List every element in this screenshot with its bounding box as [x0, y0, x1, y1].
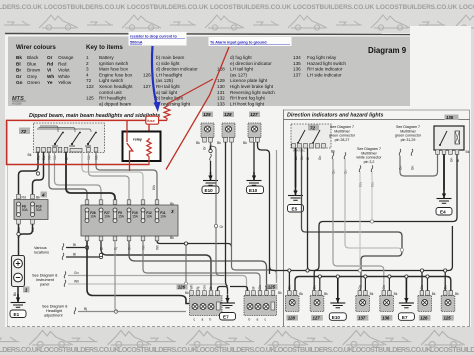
indicator lamp 126 (bottom row) — [418, 285, 436, 321]
wire 129 Gr feed down — [211, 142, 225, 276]
svg-text:Reversing light switch: Reversing light switch — [230, 90, 275, 95]
top watermark car row — [4, 15, 78, 30]
svg-text:Gn: Gn — [318, 156, 322, 160]
svg-text:Bl: Bl — [252, 286, 256, 289]
top watermark text row — [0, 4, 474, 11]
svg-text:LH headlight: LH headlight — [156, 72, 183, 77]
key to items column 4 — [293, 55, 346, 77]
ground E5 — [288, 187, 303, 200]
wire 72dir pin1 to ground E5 — [295, 148, 297, 187]
svg-text:b) brake light: b) brake light — [156, 96, 184, 101]
svg-text:Bl: Bl — [73, 243, 76, 247]
svg-text:LH tail light: LH tail light — [230, 67, 254, 72]
svg-text:127: 127 — [143, 84, 151, 89]
svg-text:Gn: Gn — [449, 158, 453, 162]
svg-text:72: 72 — [310, 126, 316, 131]
header underline right section — [284, 119, 470, 121]
svg-text:(as 125): (as 125) — [156, 78, 173, 83]
key to items column 1 — [86, 44, 133, 106]
svg-text:RH front fog light: RH front fog light — [230, 96, 266, 101]
wire 72 pin6 to fusebox3 F11 — [96, 152, 157, 200]
ground E10 mid — [247, 172, 262, 185]
svg-text:Br: Br — [16, 68, 21, 73]
svg-text:Hazard light switch: Hazard light switch — [307, 61, 346, 66]
svg-text:Rd: Rd — [22, 196, 26, 200]
sheet top edge line — [5, 34, 410, 35]
svg-text:E4: E4 — [440, 210, 446, 215]
section divider vertical — [283, 110, 285, 327]
tag 4 — [41, 192, 48, 198]
indicator lamp 125 (bottom row) — [441, 285, 459, 321]
svg-text:3: 3 — [171, 209, 174, 214]
svg-text:50A: 50A — [22, 208, 29, 212]
svg-text:Bl: Bl — [209, 286, 213, 289]
svg-text:125: 125 — [444, 316, 452, 321]
svg-text:fuse: fuse — [147, 119, 155, 123]
tag 129 — [202, 112, 213, 118]
svg-text:Gn: Gn — [443, 285, 447, 289]
svg-text:135: 135 — [293, 61, 301, 66]
E4 label — [436, 208, 452, 216]
wire 135 pin1 to green31 — [400, 154, 438, 176]
MTS logo — [12, 96, 26, 106]
svg-text:Bk: Bk — [370, 292, 374, 296]
svg-text:132: 132 — [217, 96, 225, 101]
svg-text:Blue: Blue — [27, 61, 37, 66]
wire 72dir pin2 bus232 to 137b — [302, 148, 403, 291]
tag 72 — [19, 128, 30, 135]
wire Gn instrument — [68, 276, 247, 296]
light switch 72 (direction section) — [291, 124, 331, 148]
svg-text:Gr: Gr — [16, 74, 22, 79]
wire F11 drop to row4 — [157, 241, 232, 247]
svg-text:Gn: Gn — [312, 285, 316, 289]
red relay coil — [147, 138, 151, 165]
svg-text:126: 126 — [420, 316, 428, 321]
wire 125 Bk pin to E7 — [230, 287, 248, 291]
riser 136b right pin — [388, 277, 390, 291]
riser 127b right pin — [319, 277, 321, 291]
key to items column 3 — [217, 55, 275, 106]
svg-text:Grey: Grey — [27, 74, 38, 79]
svg-text:b: b — [249, 318, 251, 322]
svg-text:Engine fuse box: Engine fuse box — [99, 72, 133, 77]
svg-text:a: a — [257, 318, 259, 322]
svg-text:Violet: Violet — [58, 68, 70, 73]
svg-text:15A: 15A — [132, 215, 139, 219]
svg-text:Wh: Wh — [265, 284, 269, 289]
svg-text:Black: Black — [27, 55, 39, 60]
wire 72 pin2 to fusebox4 F10 — [33, 152, 44, 194]
svg-text:(as 127): (as 127) — [230, 72, 247, 77]
svg-text:126: 126 — [143, 72, 151, 77]
svg-text:Bk: Bk — [196, 141, 200, 145]
svg-text:Bl: Bl — [456, 159, 460, 162]
svg-text:Bk: Bk — [278, 291, 282, 295]
svg-text:1: 1 — [86, 55, 89, 60]
svg-text:Light switch: Light switch — [99, 78, 124, 83]
svg-text:Red: Red — [58, 61, 67, 66]
svg-text:pin 28,27: pin 28,27 — [335, 138, 350, 142]
headlight 125 — [244, 291, 277, 322]
SECTION: right wiring — [270, 115, 470, 291]
wire white2 to bus222 — [371, 172, 373, 222]
svg-text:Bl: Bl — [16, 61, 21, 66]
junction 129 drop — [209, 149, 212, 152]
svg-text:Bk: Bk — [243, 141, 247, 145]
svg-text:Battery: Battery — [99, 55, 114, 60]
indicator lamp 127 (bottom row) — [310, 285, 328, 321]
svg-text:adjustment: adjustment — [44, 314, 64, 318]
svg-text:2: 2 — [86, 61, 89, 66]
svg-text:131: 131 — [217, 90, 225, 95]
relay box — [123, 132, 161, 162]
E7 label bottom — [398, 313, 414, 321]
svg-text:control unit: control unit — [99, 90, 122, 95]
wire F19 drop to row2 — [129, 241, 267, 295]
squiggle various 2 — [62, 253, 64, 260]
tag 127 — [249, 112, 260, 118]
svg-text:Bk: Bk — [324, 292, 328, 296]
wire 135 pin4 bus222 to 127b — [314, 154, 457, 290]
svg-text:White: White — [58, 74, 70, 79]
svg-text:Gn: Gn — [74, 271, 79, 275]
svg-text:127: 127 — [250, 112, 258, 117]
svg-text:E10: E10 — [332, 315, 341, 320]
svg-text:4: 4 — [86, 72, 89, 77]
tag 1 — [23, 287, 30, 293]
fuse F10 50A — [31, 202, 35, 217]
svg-text:Bk: Bk — [466, 150, 470, 154]
tag 128 — [223, 112, 234, 118]
red relay switch feed — [126, 120, 128, 142]
svg-text:Bk: Bk — [455, 292, 459, 296]
branch bus270 to 125b left pin — [444, 271, 446, 291]
svg-text:Rd: Rd — [31, 228, 35, 232]
branch bus270 to 126b left pin — [421, 271, 423, 291]
wire 129 to squiggle — [210, 142, 212, 153]
wire labels above 126 — [185, 284, 213, 295]
svg-text:Bl: Bl — [73, 253, 76, 257]
note see diagram 7 green connector 31,29 — [395, 125, 422, 142]
pin labels under 72 dir — [294, 156, 322, 160]
junction row1 — [99, 253, 102, 256]
svg-text:d) fog light: d) fog light — [230, 55, 252, 60]
red wire fuse to resistor — [159, 119, 168, 121]
svg-text:126: 126 — [178, 285, 186, 290]
fuse F12 — [141, 208, 145, 223]
see diagram 8 headlight adjustment note — [42, 305, 67, 318]
junction on Rd wires — [36, 172, 39, 175]
svg-text:135: 135 — [446, 115, 454, 120]
svg-text:Wh: Wh — [190, 284, 194, 289]
E10 label bottom — [329, 313, 346, 321]
svg-text:b) main beam: b) main beam — [156, 55, 185, 60]
svg-text:Green: Green — [27, 80, 40, 85]
wire green1 y266 to 136b — [333, 159, 384, 291]
svg-text:c) side light: c) side light — [156, 61, 180, 66]
svg-text:e) direction indicator: e) direction indicator — [230, 61, 272, 66]
note alarm annotation — [209, 37, 292, 46]
svg-text:Bj: Bj — [84, 307, 87, 311]
svg-text:Bj: Bj — [196, 286, 200, 289]
svg-text:Direction indicators and hazar: Direction indicators and hazard lights — [287, 113, 383, 119]
svg-text:Dipped beam, main beam headlig: Dipped beam, main beam headlights and si… — [29, 113, 160, 119]
svg-text:Bk: Bk — [299, 292, 303, 296]
svg-text:Licence plate light: Licence plate light — [230, 78, 268, 83]
wire 72 pin1 to fusebox4 F8 — [19, 152, 39, 194]
svg-text:Vi: Vi — [47, 68, 51, 73]
wire 135 pin2 to ground E4 — [443, 154, 445, 190]
wire F8 to battery — [18, 224, 20, 256]
svg-text:relay: relay — [133, 138, 143, 142]
svg-text:137: 137 — [293, 72, 301, 77]
wire to fusebox3 F12 — [82, 153, 143, 201]
svg-text:Instrument: Instrument — [36, 278, 55, 282]
svg-text:pin 31,29: pin 31,29 — [401, 138, 416, 142]
wire F26 drop to bottom bus — [87, 241, 190, 304]
svg-text:134: 134 — [293, 55, 301, 60]
E1 label — [10, 310, 26, 318]
blue arrow to resistor — [152, 46, 161, 112]
wire labels under 72 — [36, 155, 98, 160]
wire F12 drop to row3 — [143, 241, 260, 295]
svg-text:a) tail light: a) tail light — [156, 90, 178, 95]
indicator lamp 137 (bottom row) — [356, 285, 374, 321]
svg-text:resistor to drop current to: resistor to drop current to — [130, 35, 178, 39]
svg-text:HO2956: HO2956 — [12, 102, 22, 106]
svg-text:High level brake light: High level brake light — [230, 84, 274, 89]
junction Bl2 on F27 drop — [99, 255, 102, 258]
svg-text:130: 130 — [217, 84, 225, 89]
bus270 from left section — [270, 267, 308, 271]
svg-text:125: 125 — [86, 96, 94, 101]
svg-text:Orange: Orange — [58, 55, 74, 60]
wire 72dir pin3 bus270 long — [308, 148, 453, 271]
SECTION: left wiring part 2 — [32, 112, 282, 322]
squiggle green2 — [344, 153, 346, 160]
fuse F8 50A — [17, 202, 21, 217]
tag 135 — [445, 115, 459, 121]
wire white1 to bus270 — [359, 172, 361, 271]
svg-text:Wh: Wh — [74, 280, 79, 284]
E10 label left — [202, 186, 219, 194]
junction Bl1 on F26 drop — [85, 246, 88, 249]
tail light 128 — [222, 123, 235, 142]
svg-text:RH side indicator: RH side indicator — [307, 67, 343, 72]
svg-text:LH front fog light: LH front fog light — [230, 101, 265, 106]
svg-text:c) reversing light: c) reversing light — [156, 101, 191, 106]
E7 label left — [220, 313, 236, 321]
wire 72 pin5 to fusebox3 F19 — [89, 152, 130, 200]
riser 126b right pin — [427, 277, 429, 291]
tag 126 — [177, 284, 188, 290]
wire drop at 186 — [185, 244, 187, 284]
SECTION: red overlay — [7, 32, 292, 171]
tag 3 — [170, 208, 177, 214]
svg-text:E7: E7 — [223, 315, 229, 320]
wire F27 drop to row1 — [101, 241, 211, 290]
battery 1 — [12, 256, 25, 287]
wire squiggle to ground E10 — [210, 161, 212, 172]
svg-text:137: 137 — [358, 316, 366, 321]
svg-text:pin 3,2: pin 3,2 — [364, 160, 375, 164]
svg-text:Rd: Rd — [47, 61, 53, 66]
squiggle instrument 2 — [64, 280, 66, 287]
tag 72 dir — [308, 125, 319, 131]
junction Bj with F9 drop — [114, 310, 117, 313]
svg-text:a: a — [202, 318, 204, 322]
squiggle 129 — [210, 154, 212, 161]
svg-text:133: 133 — [217, 101, 225, 106]
red relay lever — [127, 143, 133, 171]
svg-text:Main fuse box: Main fuse box — [99, 67, 129, 72]
SECTION: right bottom components — [285, 275, 459, 321]
indicator lamp 128 (bottom row) — [285, 285, 303, 321]
note see diagram 7 white connector 3,2 — [356, 147, 382, 164]
svg-text:Wh: Wh — [47, 74, 54, 79]
svg-text:Bk: Bk — [16, 55, 22, 60]
svg-text:Fog light relay: Fog light relay — [307, 55, 337, 60]
svg-text:128: 128 — [224, 112, 232, 117]
svg-text:See Diagram 8: See Diagram 8 — [32, 274, 57, 278]
ground E7 bottom — [399, 295, 414, 308]
squiggle green29 — [411, 149, 413, 156]
svg-text:E5: E5 — [292, 207, 298, 212]
key to items column 2 — [143, 55, 198, 106]
svg-text:panel: panel — [40, 283, 49, 287]
svg-text:To Alarm input going to ground: To Alarm input going to ground — [210, 41, 267, 45]
svg-text:E1: E1 — [14, 312, 20, 317]
ground E7 bottom stem — [405, 277, 407, 296]
squiggle green31 — [399, 149, 401, 156]
ground E7 left — [220, 295, 235, 308]
long gray vertical feed — [276, 150, 278, 283]
svg-text:Key to items: Key to items — [86, 44, 123, 51]
E5 label — [288, 205, 304, 213]
svg-text:locations: locations — [34, 251, 49, 255]
svg-text:Bk: Bk — [394, 292, 398, 296]
red line resistor to alarm junction — [167, 79, 213, 104]
long vertical feed to right section — [258, 142, 270, 274]
wire battery to ground — [17, 287, 19, 302]
bottom watermark text row — [0, 345, 474, 354]
wire Wh instrument — [68, 284, 228, 291]
ground bus y276.5 — [295, 277, 451, 291]
red resistor zigzag — [164, 104, 170, 121]
svg-text:Wh: Wh — [155, 245, 159, 250]
junction battery wires — [17, 232, 20, 235]
squiggle various 1 — [62, 244, 64, 251]
fuse F9 — [113, 208, 117, 223]
wire various Bl 1 — [66, 247, 87, 249]
svg-text:Gn: Gn — [420, 285, 424, 289]
svg-text:10A: 10A — [160, 215, 167, 219]
svg-text:72: 72 — [86, 78, 92, 83]
svg-text:Gn: Gn — [382, 285, 386, 289]
svg-text:Gn: Gn — [288, 285, 292, 289]
svg-text:Gn: Gn — [358, 285, 362, 289]
svg-text:10A: 10A — [90, 215, 97, 219]
svg-text:Bk: Bk — [185, 291, 189, 295]
wire 72 pin4 to fusebox3 F27 — [55, 152, 102, 200]
ground E4 — [437, 190, 452, 203]
sheet bottom dashed edge — [7, 326, 470, 328]
svg-text:128: 128 — [288, 316, 296, 321]
fuse F27 — [99, 208, 103, 223]
svg-text:Various: Various — [34, 246, 47, 250]
hazard switch 135 — [434, 126, 464, 154]
svg-text:50A: 50A — [36, 208, 43, 212]
squiggle headlight adj — [74, 308, 76, 315]
diagram outer frame — [7, 122, 9, 327]
branch bus270 to 128b left pin — [288, 271, 290, 291]
svg-text:127: 127 — [313, 316, 321, 321]
svg-text:RH headlight: RH headlight — [99, 96, 127, 101]
switch levers inside 72 — [55, 132, 96, 144]
svg-text:122: 122 — [86, 84, 94, 89]
squiggle green1 — [332, 153, 334, 160]
junction bus270 at 72dir drop — [306, 269, 309, 272]
wire 127 to ground — [253, 142, 255, 172]
svg-text:Yellow: Yellow — [58, 80, 72, 85]
internal wiring arcs — [37, 126, 91, 132]
fuse F19 — [127, 208, 131, 223]
svg-text:Gn: Gn — [16, 80, 23, 85]
red line to alarm text — [166, 47, 229, 170]
fuse box 3 — [81, 200, 178, 241]
svg-text:Bk: Bk — [432, 292, 436, 296]
svg-text:d) direction indicator: d) direction indicator — [156, 67, 198, 72]
svg-text:Rd: Rd — [17, 228, 21, 232]
various locations note — [34, 246, 49, 255]
wire 72 main feed to fusebox3 F9 — [66, 152, 115, 200]
svg-text:Bk: Bk — [170, 236, 174, 240]
E10 label mid — [247, 186, 264, 194]
svg-text:E7: E7 — [402, 315, 408, 320]
svg-text:Bk: Bk — [36, 196, 40, 200]
svg-text:Headlight: Headlight — [46, 309, 63, 313]
wire 128 pin1 down — [226, 142, 228, 286]
wire various Bl 2 — [66, 256, 101, 258]
see diagram 8 instrument panel note — [32, 274, 57, 287]
wire Bj headlight adjustment — [78, 311, 186, 313]
svg-text:125: 125 — [268, 285, 276, 290]
svg-text:a) dipped beam: a) dipped beam — [99, 101, 131, 106]
note see diagram 7 green connector 28,27 — [329, 125, 356, 142]
svg-text:E10: E10 — [249, 188, 258, 193]
wire green2 y248 join — [345, 159, 402, 252]
wire 128 pin2 down — [232, 142, 277, 279]
ground E10 bottom — [330, 295, 345, 308]
wire colour labels under fusebox3 — [85, 245, 159, 250]
ground E10 bottom stem — [337, 277, 339, 296]
svg-text:Bk: Bk — [28, 153, 32, 157]
svg-text:10A: 10A — [146, 215, 153, 219]
svg-text:Diagram 9: Diagram 9 — [368, 46, 407, 55]
tail light 127 — [248, 123, 261, 142]
svg-text:129: 129 — [203, 112, 211, 117]
svg-text:Ignition switch: Ignition switch — [99, 61, 129, 66]
svg-text:Ye: Ye — [47, 80, 53, 85]
ground E10 left — [203, 172, 218, 185]
squiggle instrument 1 — [64, 272, 66, 279]
svg-text:b: b — [210, 318, 212, 322]
svg-text:4: 4 — [41, 193, 45, 198]
svg-text:72: 72 — [21, 129, 27, 134]
svg-text:3: 3 — [86, 67, 89, 72]
bottom watermark car row — [0, 330, 465, 347]
